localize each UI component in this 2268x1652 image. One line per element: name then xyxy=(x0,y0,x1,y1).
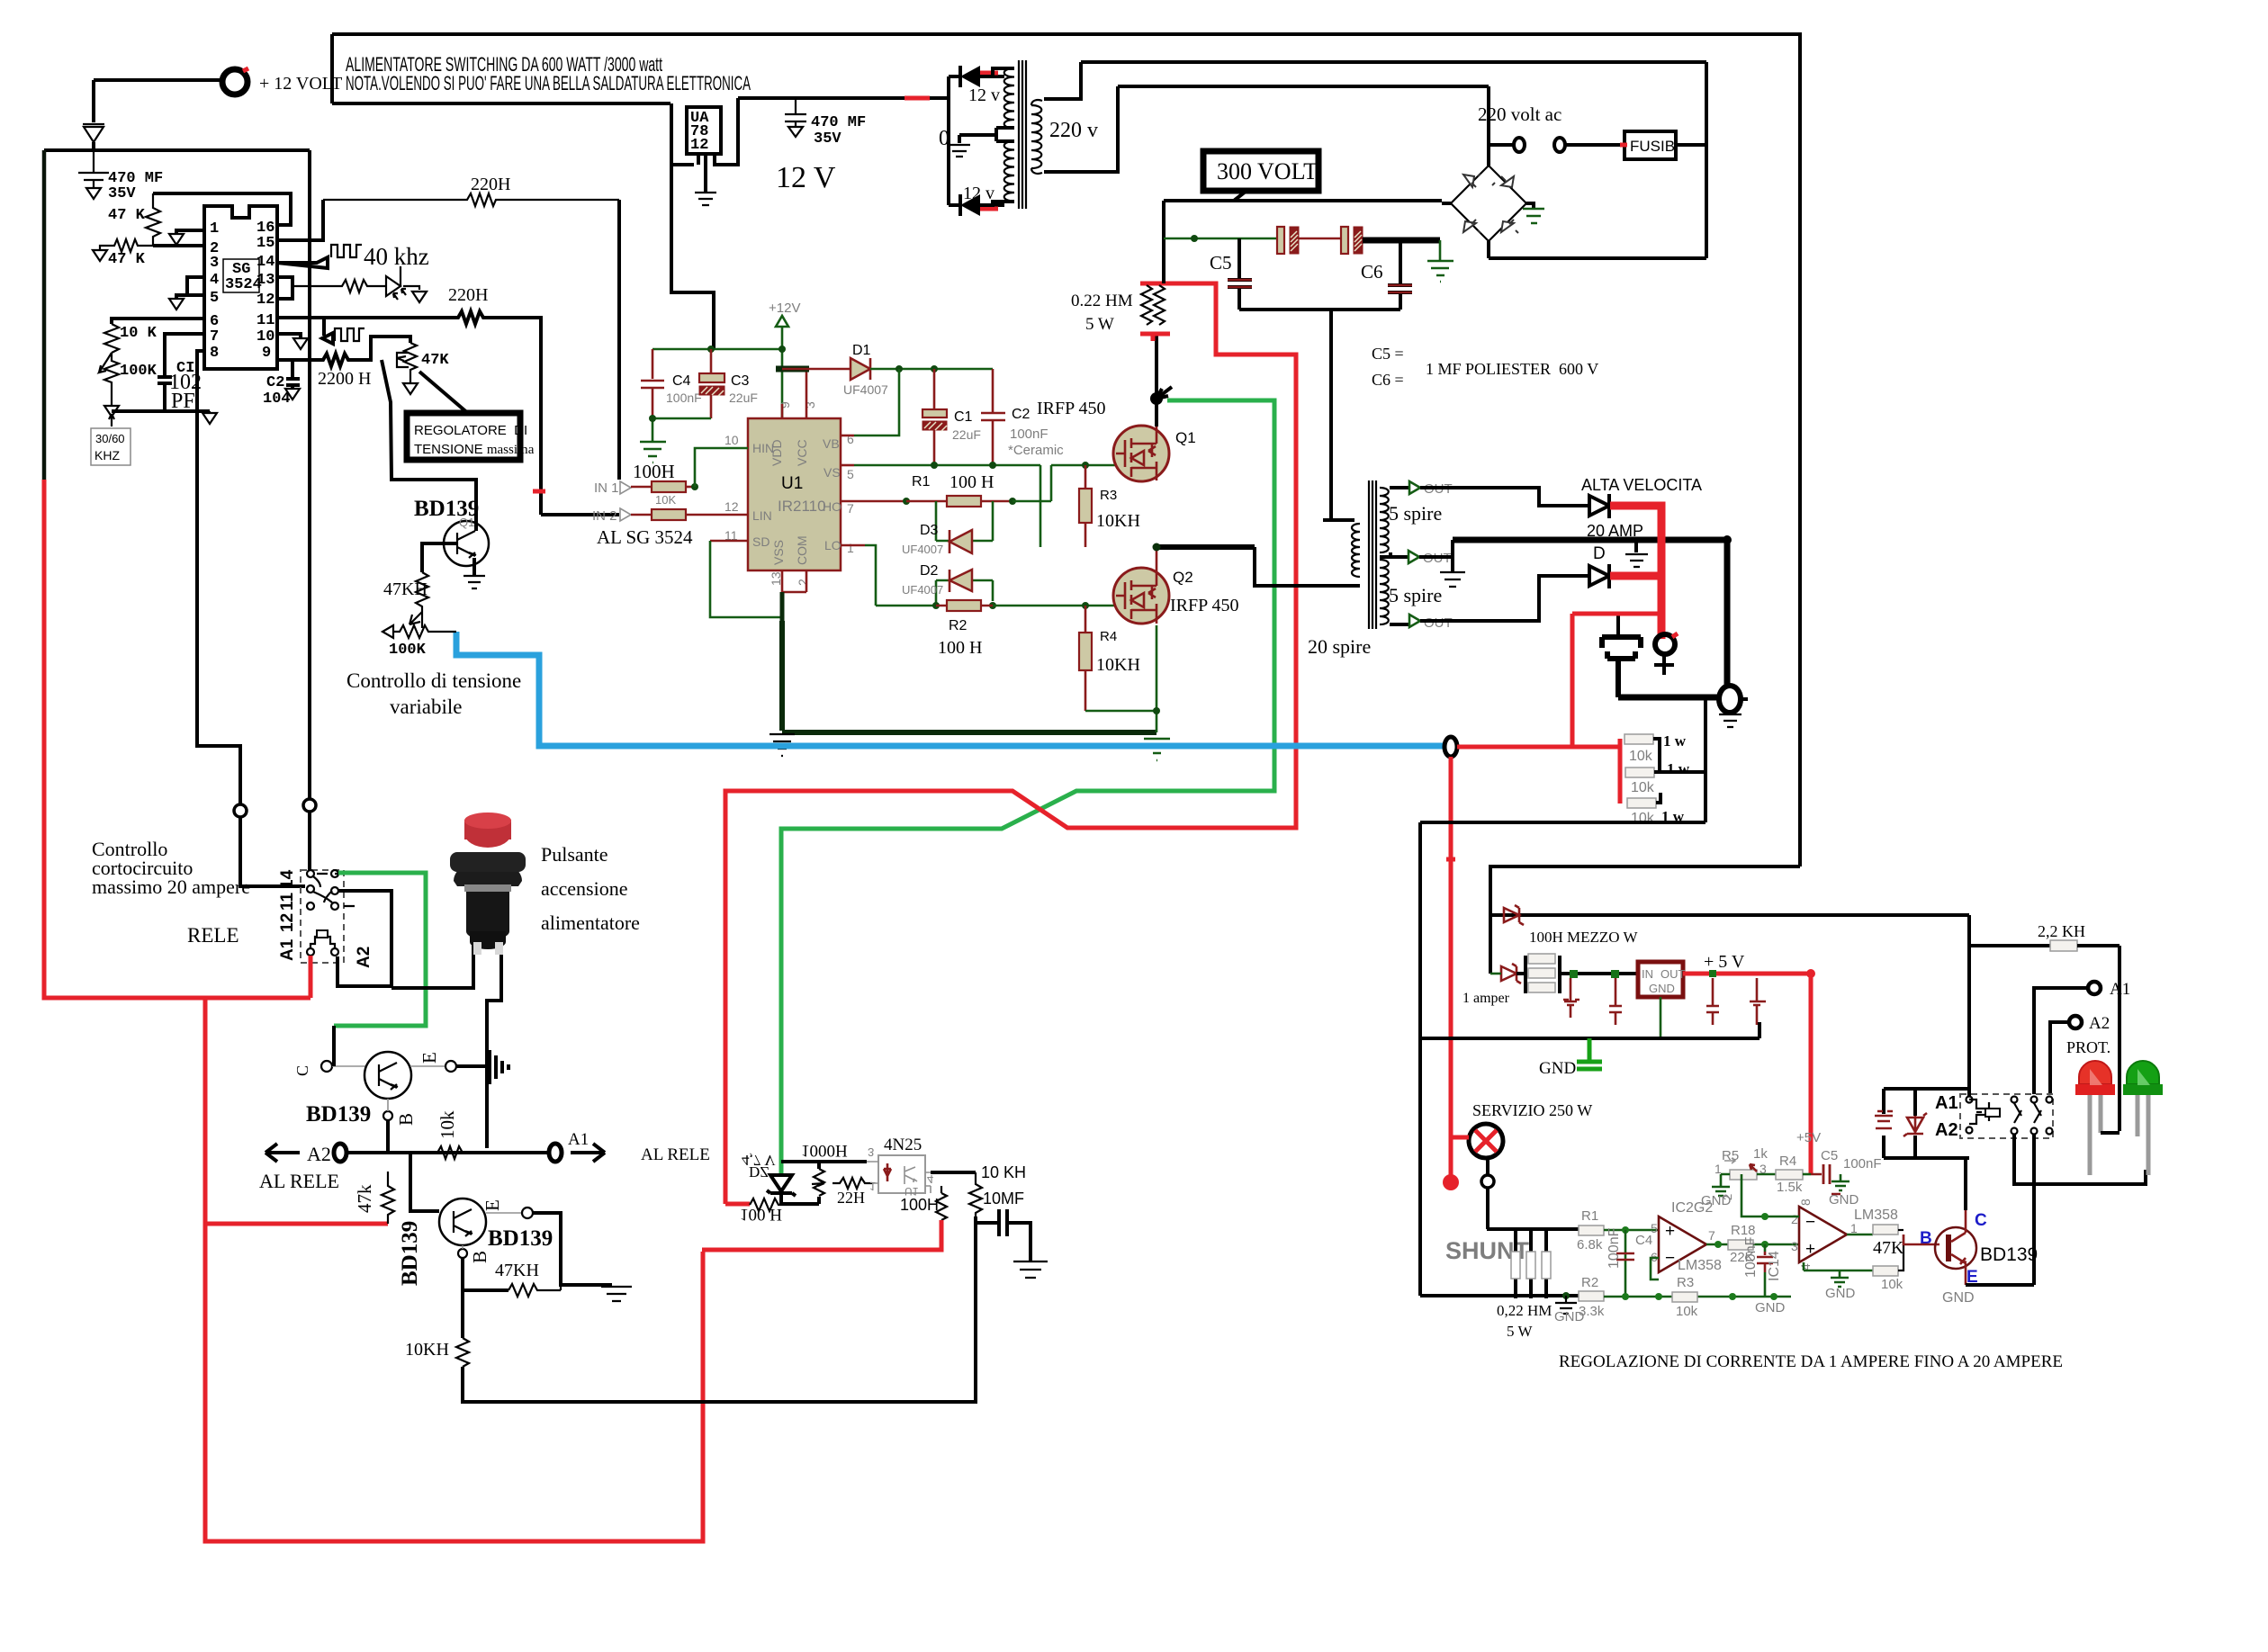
ground at 233 xyxy=(202,411,217,424)
svg-text:6: 6 xyxy=(847,432,854,446)
red LED wire xyxy=(2101,1131,2119,1135)
pin10 ground xyxy=(277,334,301,337)
trafo secondary bottom xyxy=(1380,560,1389,624)
trafo main primary xyxy=(1352,524,1360,577)
svg-text:5: 5 xyxy=(210,290,219,307)
svg-text:U1: U1 xyxy=(781,474,803,493)
shunt resistors xyxy=(1516,1229,1546,1298)
4N25 pin4 wire xyxy=(931,1171,976,1174)
svg-text:D: D xyxy=(1593,544,1606,563)
squarewave 2 xyxy=(335,328,364,341)
svg-text:1 w: 1 w xyxy=(1667,760,1690,777)
lamp to shunt xyxy=(1486,1158,1489,1175)
green bottom net xyxy=(1604,1296,1791,1298)
U1 ground bus xyxy=(782,621,1156,732)
svg-text:12 V: 12 V xyxy=(776,161,836,194)
svg-text:C: C xyxy=(1975,1211,1987,1230)
300V vertical to 0.22HM xyxy=(1162,201,1165,283)
svg-text:IRFP 450: IRFP 450 xyxy=(1037,399,1106,418)
green wire from Q1 drain node xyxy=(781,400,1274,1175)
blue feedback wire xyxy=(456,632,1444,746)
wire circle to relay pin14 xyxy=(308,812,311,870)
svg-text:1: 1 xyxy=(1850,1221,1858,1235)
svg-text:Q1: Q1 xyxy=(1175,429,1196,446)
secondary top tap xyxy=(1390,486,1409,489)
D3 diode xyxy=(936,501,993,541)
D2 diode xyxy=(936,580,993,606)
svg-text:*Ceramic: *Ceramic xyxy=(1008,443,1064,458)
right border wire xyxy=(1798,32,1802,866)
svg-text:1k: 1k xyxy=(1753,1146,1768,1162)
1000H line xyxy=(781,1160,867,1163)
svg-text:DZ: DZ xyxy=(749,1163,769,1181)
svg-text:R4: R4 xyxy=(1779,1154,1796,1169)
svg-text:4N25: 4N25 xyxy=(884,1136,922,1154)
+12V distribution bus xyxy=(652,348,782,351)
svg-text:3: 3 xyxy=(210,255,219,272)
svg-text:BD139: BD139 xyxy=(398,1221,422,1286)
green ground symbol xyxy=(1577,1038,1602,1069)
+12V arrow xyxy=(776,316,788,418)
capacitor C3 xyxy=(710,349,713,373)
pin9 wire with 2200H xyxy=(277,337,410,366)
capacitor C2 ceramic xyxy=(981,369,1005,465)
R1 shunt amp xyxy=(1579,1226,1604,1235)
transistor Q BD139 (voltage control) xyxy=(444,521,489,566)
svg-text:C5 =: C5 = xyxy=(1372,345,1404,363)
svg-text:10KH: 10KH xyxy=(405,1340,449,1360)
svg-text:22uF: 22uF xyxy=(729,391,758,405)
red branch to 47k xyxy=(205,1222,388,1226)
diode D xyxy=(1589,566,1609,586)
svg-text:BD139: BD139 xyxy=(488,1226,553,1251)
svg-text:220 volt ac: 220 volt ac xyxy=(1478,103,1561,125)
C5/C6 bottom line xyxy=(1239,308,1400,311)
svg-text:ALTA VELOCITA: ALTA VELOCITA xyxy=(1581,476,1702,494)
svg-text:C1: C1 xyxy=(954,409,973,425)
svg-text:C4: C4 xyxy=(672,373,691,389)
10k resistor horizontal xyxy=(432,1146,468,1159)
FUSIB xyxy=(1624,131,1676,159)
svg-text:R3: R3 xyxy=(1677,1275,1694,1290)
svg-text:FUSIB: FUSIB xyxy=(1630,138,1675,155)
svg-text:KHZ: KHZ xyxy=(94,448,120,462)
VDD pin stub xyxy=(781,404,784,418)
svg-text:D3: D3 xyxy=(920,523,939,538)
bridge diodes xyxy=(1463,174,1518,233)
opamp1 LM358 xyxy=(1659,1217,1706,1272)
svg-text:12: 12 xyxy=(278,913,297,932)
connector circle left xyxy=(234,804,247,817)
svg-text:D2: D2 xyxy=(920,563,939,579)
svg-text:C2: C2 xyxy=(266,374,284,391)
VCC/VDD link thick xyxy=(776,366,809,373)
D1 diode xyxy=(782,368,850,371)
trafo12 12v winding top xyxy=(1004,68,1014,129)
right border down path xyxy=(1490,866,1800,915)
svg-text:7: 7 xyxy=(210,328,219,346)
100H mezzo W branch xyxy=(1489,915,1492,974)
trafo12 core xyxy=(1019,60,1026,209)
resistor 47K horizontal (pin2 left) xyxy=(107,239,153,252)
svg-text:IN 2: IN 2 xyxy=(592,508,617,524)
secondary mid tap xyxy=(1380,552,1408,557)
svg-text:TENSIONE massima: TENSIONE massima xyxy=(414,442,535,457)
svg-text:2: 2 xyxy=(1721,1194,1734,1200)
svg-text:5 W: 5 W xyxy=(1085,315,1114,334)
resistor 47K vertical (pin2 top) xyxy=(146,193,160,246)
svg-text:12: 12 xyxy=(690,137,708,154)
svg-text:30/60: 30/60 xyxy=(95,432,125,445)
svg-text:104: 104 xyxy=(263,391,291,408)
wire from +12V to left xyxy=(94,78,222,82)
svg-text:BD139: BD139 xyxy=(306,1102,371,1127)
wire down to diode xyxy=(92,80,95,122)
svg-text:3: 3 xyxy=(1759,1162,1767,1176)
svg-text:+: + xyxy=(1805,1240,1815,1259)
ground 100K xyxy=(104,391,119,417)
10k 1w stack xyxy=(1618,739,1623,804)
secondary bottom tap xyxy=(1390,623,1409,626)
svg-text:accensione: accensione xyxy=(541,877,628,900)
filter caps row xyxy=(1563,978,1579,1018)
R2 xyxy=(932,602,940,609)
relay2 dashed box xyxy=(1960,1094,2053,1138)
svg-text:0,22 HM: 0,22 HM xyxy=(1497,1302,1552,1319)
wire to BD139 base xyxy=(1903,1235,1939,1244)
capacitor 470MF (left) xyxy=(78,150,109,188)
svg-text:2,2 KH: 2,2 KH xyxy=(2038,922,2085,940)
svg-text:alimentatore: alimentatore xyxy=(541,911,640,934)
svg-text:GND: GND xyxy=(1755,1300,1786,1315)
svg-text:1: 1 xyxy=(1714,1162,1722,1176)
svg-text:5 spire: 5 spire xyxy=(1389,584,1442,606)
svg-text:300 VOLT: 300 VOLT xyxy=(1217,158,1318,184)
button wires xyxy=(391,928,501,1148)
blue end oval xyxy=(1444,737,1457,757)
svg-text:100nF: 100nF xyxy=(1010,426,1048,442)
svg-text:100 H: 100 H xyxy=(938,638,982,658)
svg-text:HIN: HIN xyxy=(752,441,774,455)
svg-text:100K: 100K xyxy=(389,642,427,659)
svg-text:VSS: VSS xyxy=(771,540,786,565)
svg-text:9: 9 xyxy=(262,345,271,362)
output to R18 xyxy=(1706,1243,1728,1246)
left vertical (dark) xyxy=(42,150,47,480)
svg-text:35V: 35V xyxy=(108,185,136,202)
10KH resistor xyxy=(461,1290,464,1338)
svg-text:10MF: 10MF xyxy=(983,1190,1024,1208)
svg-text:VCC: VCC xyxy=(795,439,809,466)
wire 47K top to pin16 xyxy=(153,193,291,225)
red output wiring xyxy=(1610,506,1661,639)
svg-text:LM358: LM358 xyxy=(1854,1208,1898,1223)
pin14 wire 40khz xyxy=(277,257,328,268)
IC SG3524 body xyxy=(204,206,277,369)
7805 regulator xyxy=(1638,962,1683,997)
+5V red line xyxy=(1683,974,1811,1174)
svg-text:GND: GND xyxy=(1539,1059,1576,1078)
R3 on bottom net xyxy=(1672,1292,1697,1302)
upper BD139 driver xyxy=(321,1061,332,1072)
green net R1 to opamp xyxy=(1604,1229,1659,1232)
relay2 coil xyxy=(1966,1097,1973,1103)
svg-text:R2: R2 xyxy=(949,618,967,633)
ground pin1 xyxy=(176,230,204,234)
svg-text:C: C xyxy=(293,1065,311,1076)
wire circle to relay xyxy=(240,817,305,886)
svg-text:22uF: 22uF xyxy=(952,427,981,442)
svg-text:+12V: +12V xyxy=(769,301,800,316)
plus symbol xyxy=(1654,655,1674,675)
resistor 220H first xyxy=(323,193,619,206)
trafo12 center tap xyxy=(959,128,1014,143)
svg-text:10 K: 10 K xyxy=(120,325,157,342)
Q2 source ground xyxy=(1156,625,1158,732)
svg-text:1 amper: 1 amper xyxy=(1462,991,1510,1006)
green to pin2 xyxy=(1741,1174,1799,1217)
svg-text:R1: R1 xyxy=(1581,1208,1598,1224)
svg-text:LIN: LIN xyxy=(752,508,772,523)
C14 cap xyxy=(1764,1244,1767,1252)
bridge left to 300V line xyxy=(1442,202,1451,205)
red wire 0.22HM to crossing xyxy=(725,283,1296,1204)
svg-text:1: 1 xyxy=(869,1180,876,1193)
svg-text:470 MF: 470 MF xyxy=(811,114,866,131)
Q1 mosfet xyxy=(1113,426,1169,481)
svg-text:IR2110: IR2110 xyxy=(778,498,826,515)
svg-text:10KH: 10KH xyxy=(1096,655,1140,675)
long vertical to shunt bus xyxy=(1418,822,1422,1296)
svg-text:variabile: variabile xyxy=(390,696,462,718)
IN1 vertical xyxy=(617,200,621,480)
svg-text:1000H: 1000H xyxy=(801,1141,848,1160)
ALTA VELOCITA diode xyxy=(1589,496,1609,516)
svg-text:A2: A2 xyxy=(355,947,373,968)
svg-text:−: − xyxy=(1805,1213,1815,1232)
trafo primary bottom wire xyxy=(1255,547,1360,586)
svg-text:3: 3 xyxy=(803,401,817,409)
svg-text:1: 1 xyxy=(210,220,219,238)
C4/C3 bottom bus + ground xyxy=(652,418,711,442)
12V rail xyxy=(738,96,949,100)
svg-text:10: 10 xyxy=(256,328,274,346)
svg-text:Q1: Q1 xyxy=(459,516,474,529)
svg-text:9: 9 xyxy=(778,401,792,409)
svg-text:20 spire: 20 spire xyxy=(1308,635,1371,658)
squarewave symbol 40khz xyxy=(331,245,362,257)
bottom wire pin7 net xyxy=(112,409,210,413)
svg-text:47 K: 47 K xyxy=(108,251,146,268)
bus under 10k to left xyxy=(1420,821,1705,824)
relay NO contact wiring xyxy=(337,891,391,986)
SD loop xyxy=(710,540,748,543)
svg-text:R4: R4 xyxy=(1100,629,1117,644)
Q2 mosfet xyxy=(1113,568,1169,624)
svg-text:A2: A2 xyxy=(1935,1120,1958,1140)
green LED xyxy=(2127,1061,2159,1084)
svg-text:BD139: BD139 xyxy=(1980,1244,2038,1265)
svg-text:C6 =: C6 = xyxy=(1372,371,1404,389)
svg-text:AL RELE: AL RELE xyxy=(641,1145,710,1164)
pin13 resistor-diode to ground xyxy=(292,280,383,292)
trimmer vertical xyxy=(817,1162,821,1204)
svg-text:100nF: 100nF xyxy=(666,391,702,405)
svg-text:R3: R3 xyxy=(1100,488,1117,503)
svg-text:10KH: 10KH xyxy=(1096,511,1140,531)
svg-text:13: 13 xyxy=(256,272,274,289)
svg-text:10k: 10k xyxy=(1676,1304,1698,1319)
svg-text:−: − xyxy=(1665,1249,1675,1268)
resistor 10K xyxy=(104,324,119,353)
svg-text:100 H: 100 H xyxy=(740,1205,782,1224)
title box top border xyxy=(332,32,1798,36)
U1 ground symbol xyxy=(769,734,795,756)
green wire relay to C xyxy=(334,873,426,1026)
svg-text:40 khz: 40 khz xyxy=(364,243,429,270)
svg-text:GND: GND xyxy=(1825,1286,1856,1301)
svg-text:R2: R2 xyxy=(1581,1275,1598,1290)
svg-text:C6: C6 xyxy=(1361,261,1383,283)
ground pin2 resistor xyxy=(93,246,107,261)
svg-text:2: 2 xyxy=(796,579,810,586)
pot 100K xyxy=(99,353,119,391)
VSS/COM pins xyxy=(782,570,806,592)
A2 - A1 line xyxy=(346,1151,549,1154)
svg-text:A1: A1 xyxy=(2110,980,2130,999)
svg-text:8: 8 xyxy=(1798,1199,1813,1206)
bridge rectifier xyxy=(1451,166,1526,241)
svg-text:IRFP 450: IRFP 450 xyxy=(1170,596,1239,615)
svg-text:UF4007: UF4007 xyxy=(902,583,943,597)
plus output terminal xyxy=(1655,634,1675,654)
svg-text:SERVIZIO 250 W: SERVIZIO 250 W xyxy=(1472,1101,1592,1119)
svg-text:12 v: 12 v xyxy=(968,85,1000,105)
C4 cap xyxy=(1616,1253,1634,1260)
ground 47K pot xyxy=(403,373,418,394)
C5 cap xyxy=(1811,1164,1840,1194)
svg-text:10k: 10k xyxy=(1629,749,1653,764)
capacitor C2 104 xyxy=(286,360,300,389)
inductor to 7805 xyxy=(1560,972,1638,975)
base down to A2 line xyxy=(386,1120,390,1153)
wire 2200H to BD139 collector xyxy=(382,360,476,531)
svg-text:12: 12 xyxy=(724,499,739,514)
svg-text:R18: R18 xyxy=(1731,1223,1756,1238)
svg-text:+5V: +5V xyxy=(1796,1130,1821,1145)
red wire from 100H down-left xyxy=(702,1220,941,1250)
thick gnd bus to cap xyxy=(1618,695,1719,701)
svg-text:3: 3 xyxy=(1791,1239,1798,1253)
10k feedback xyxy=(1873,1266,1898,1276)
ground lower right xyxy=(601,1287,632,1301)
pulsante button photo xyxy=(464,819,511,848)
emitter down/right xyxy=(1965,1263,1967,1285)
svg-text:12: 12 xyxy=(256,292,274,309)
red LED xyxy=(2079,1061,2111,1084)
+12V terminal xyxy=(222,69,247,94)
trafo main core xyxy=(1369,480,1376,629)
SG3524 inner label box xyxy=(223,259,259,292)
R2 xyxy=(1579,1291,1604,1301)
Q2 drain stub xyxy=(1156,547,1158,568)
EMI cap pair 1 xyxy=(1277,227,1284,254)
pin11 wire with 220H xyxy=(277,311,541,515)
svg-text:47K: 47K xyxy=(421,352,449,369)
svg-text:7: 7 xyxy=(1708,1228,1715,1243)
svg-text:0.22 HM: 0.22 HM xyxy=(1071,292,1133,310)
svg-text:OUT: OUT xyxy=(1660,967,1686,981)
7812 pins xyxy=(706,98,738,193)
output 47K xyxy=(1847,1234,1873,1236)
svg-text:C5: C5 xyxy=(1821,1148,1838,1163)
wire diode to bus xyxy=(92,142,95,150)
svg-text:HO: HO xyxy=(823,499,841,514)
red vertical to servizio xyxy=(1449,757,1453,1181)
svg-text:12 v: 12 v xyxy=(963,184,994,203)
svg-text:AL RELE: AL RELE xyxy=(259,1170,339,1192)
cap + zener parallel xyxy=(1884,1089,1969,1158)
47KH resistor xyxy=(463,1258,508,1290)
capacitor 470MF (12V) xyxy=(785,98,806,137)
svg-text:GND: GND xyxy=(1829,1192,1859,1208)
pin16 wire to top xyxy=(277,193,291,225)
svg-text:A1: A1 xyxy=(1935,1093,1958,1113)
svg-text:10 KH: 10 KH xyxy=(981,1163,1026,1181)
svg-text:10K: 10K xyxy=(655,493,676,507)
svg-text:COM: COM xyxy=(795,535,809,565)
svg-text:GND: GND xyxy=(1649,982,1675,995)
top-left horizontal bus xyxy=(44,148,310,152)
svg-text:A1: A1 xyxy=(568,1130,589,1149)
svg-text:B: B xyxy=(395,1113,417,1126)
VS pin + line xyxy=(841,464,854,467)
svg-text:+ 5 V: + 5 V xyxy=(1704,952,1745,972)
svg-text:massimo 20 ampere: massimo 20 ampere xyxy=(92,875,250,898)
svg-text:10k: 10k xyxy=(1881,1277,1903,1292)
zener diode top xyxy=(1504,905,1524,925)
svg-text:A2: A2 xyxy=(307,1143,331,1165)
2,2 KH line xyxy=(1969,944,2050,947)
trafo12 wires top/bottom xyxy=(980,68,1014,205)
capacitor CI 102 xyxy=(157,334,204,411)
wire 47K bottom to pin2 xyxy=(153,244,204,247)
svg-text:UF4007: UF4007 xyxy=(843,382,888,397)
svg-text:0: 0 xyxy=(939,127,949,150)
diode join vertical xyxy=(947,76,950,205)
bus ground stub xyxy=(1634,540,1638,552)
VCC pin stub xyxy=(805,369,808,418)
svg-text:4: 4 xyxy=(927,1172,933,1186)
relay1 contacts xyxy=(307,870,314,877)
300 VOLT box xyxy=(1203,151,1318,191)
red bus bottom left xyxy=(44,480,703,1541)
base wire xyxy=(422,543,457,572)
shunt bottom bus xyxy=(1420,1294,1579,1297)
zener diode lower xyxy=(1501,964,1521,983)
relay2 contacts xyxy=(2011,1097,2018,1103)
svg-text:Pulsante: Pulsante xyxy=(541,843,608,866)
long vertical pin15/pin9 net xyxy=(308,150,311,799)
D1 to C1/C2 top rail xyxy=(870,368,993,371)
svg-text:LM358: LM358 xyxy=(1678,1258,1722,1273)
30/60 KHZ box xyxy=(91,428,130,465)
emitter to ground xyxy=(472,558,476,576)
R3 xyxy=(1084,465,1087,489)
opamp2 LM358 xyxy=(1799,1207,1847,1262)
svg-text:1 MF POLIESTER 600 V: 1 MF POLIESTER 600 V xyxy=(1426,360,1598,378)
svg-text:8: 8 xyxy=(210,345,219,362)
